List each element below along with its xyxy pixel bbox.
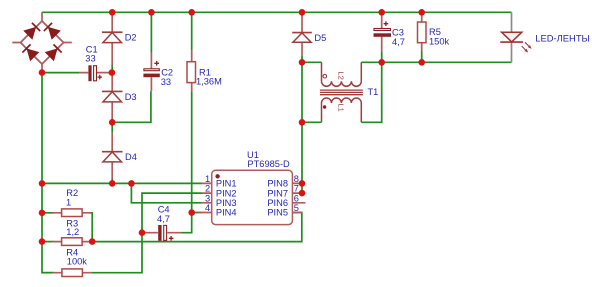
svg-text:D4: D4 [125,152,137,162]
junction C1 / D2 / D3 [109,69,116,76]
svg-text:4,7: 4,7 [392,37,405,47]
svg-text:PIN4: PIN4 [216,208,237,218]
junction left rail / PIN1 line [39,180,46,187]
svg-text:R5: R5 [429,27,441,37]
capacitor C1 [79,45,112,82]
diode D2 [102,13,137,65]
svg-text:L2: L2 [336,72,345,80]
svg-text:6: 6 [294,193,299,203]
wire D5 bottom to node [301,56,303,62]
wire PIN3 line [131,183,201,202]
junction R2 / R3 / PIN5 line [89,238,96,245]
svg-text:R2: R2 [66,188,78,198]
IC U1 PT6985-D [198,150,305,224]
wire D3 bottom to junction [111,119,113,123]
wire D3 to C2 bottom [112,91,151,122]
svg-text:L1: L1 [336,104,345,112]
wire PIN4 stub green [192,212,202,214]
svg-text:C3: C3 [392,27,404,37]
wire C2 top [150,12,152,52]
junction C3 bottom / L2 right [378,59,385,66]
svg-text:PIN2: PIN2 [216,188,237,198]
wire top rail [42,11,512,13]
svg-text:1,2: 1,2 [66,227,79,237]
svg-text:PIN6: PIN6 [267,198,288,208]
wire R2 left [42,212,54,214]
wire R1 top [191,12,193,50]
wire D2 bottom to junction [111,65,113,73]
wire bridge minus to C1 [42,72,79,74]
junction PIN8 [299,180,306,187]
junction C4 left / PIN2 / R4 [139,229,146,236]
wire PIN2 line to C4 left and R4 right [92,193,202,273]
junction bridge minus [39,69,46,76]
wire L1 right up to C3 bottom node [361,62,381,122]
junction top rail / R5 [418,9,425,16]
svg-text:2: 2 [205,184,210,194]
junction D4 anode [109,180,116,187]
resistor R2 [52,188,91,217]
svg-text:150k: 150k [429,37,450,47]
capacitor C4 [144,205,182,241]
junction top rail / R1 [188,9,195,16]
svg-text:PIN5: PIN5 [267,208,288,218]
junction L1 left [299,119,306,126]
svg-text:100k: 100k [67,257,88,267]
svg-text:33: 33 [161,77,171,87]
junction PIN1 / PIN3 split [128,180,135,187]
svg-text:D3: D3 [125,92,137,102]
wire PIN1 line [42,182,202,184]
svg-text:LED-ЛЕНТЫ: LED-ЛЕНТЫ [535,32,590,43]
svg-text:T1: T1 [368,87,379,97]
wire left vertical rail to R4 [42,73,54,273]
capacitor C3 [374,13,405,52]
svg-text:D2: D2 [125,33,137,43]
svg-text:C2: C2 [161,67,173,77]
svg-text:5: 5 [294,203,299,213]
svg-text:PIN7: PIN7 [267,188,288,198]
junction top rail / D2 [109,9,116,16]
diode D5 [292,13,326,56]
capacitor C2 [143,53,173,92]
junction R5 bottom [418,59,425,66]
svg-text:1: 1 [66,198,71,208]
svg-text:PIN8: PIN8 [267,179,288,189]
svg-text:1: 1 [205,174,210,184]
wire R4 left [42,272,54,274]
wire R3 left [42,241,54,243]
svg-text:D5: D5 [314,33,326,43]
wire D5 node to L2 left lead [302,61,322,63]
wire D3 junction to D4 top [111,122,113,132]
svg-text:1,36M: 1,36M [196,77,222,87]
junction top rail / C2 [148,9,155,16]
resistor R5 [418,12,450,51]
wire R2 right down to R3 right [90,213,93,242]
svg-text:PT6985-D: PT6985-D [247,159,290,169]
node junction dots [39,9,425,245]
svg-text:8: 8 [294,174,299,184]
wire L1 left lead to column [302,121,322,123]
wire R5 bottom [421,51,423,62]
junction D3 / D4 / C2 [109,119,116,126]
LED LED-ЛЕНТЫ [500,12,590,62]
resistor R4 [53,247,93,276]
svg-text:4,7: 4,7 [157,214,170,224]
wire D5 node down to PIN8 PIN7 [301,62,303,193]
junction top rail / D5 [299,9,306,16]
junction D5 / L2 left [299,59,306,66]
wire L2 right to C3 bottom node and LED [361,61,511,63]
wire C3 bottom [381,52,383,62]
bridge rectifier [12,12,72,72]
diode D4 [102,133,137,179]
junction left rail / R2 [39,210,46,217]
transformer T1 [320,62,378,122]
svg-text:4: 4 [205,203,210,213]
svg-text:33: 33 [85,54,95,64]
junction PIN7 [299,190,306,197]
junction top rail / C3 [378,9,385,16]
junction left rail / R3 [39,238,46,245]
diode D3 [102,73,137,119]
wire D4 bottom to PIN1 line [111,179,113,183]
pin 1 marker dot [215,174,219,178]
svg-text:7: 7 [294,184,299,194]
wire R1 bottom to PIN4 and C4 right [182,91,192,232]
svg-text:3: 3 [205,193,210,203]
svg-text:PIN3: PIN3 [216,198,237,208]
junction PIN4 / R1 / C4 right [188,209,195,216]
wire R3 right to PIN5 [92,213,302,242]
svg-text:PIN1: PIN1 [216,179,237,189]
resistor R3 [52,218,90,245]
resistor R1 [187,50,222,91]
